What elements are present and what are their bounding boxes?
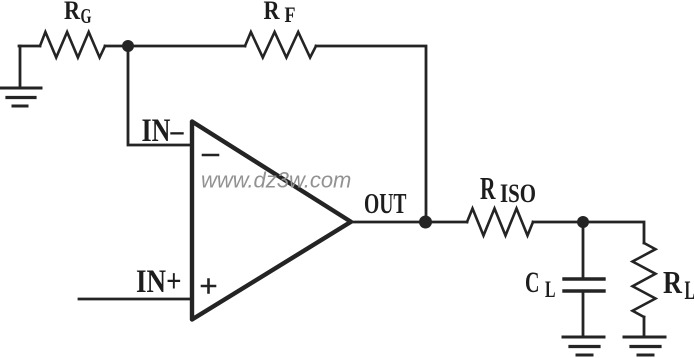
svg-text:www.dz3w.com: www.dz3w.com (201, 168, 351, 193)
svg-text:C: C (525, 266, 540, 299)
wire (RISO to CL node and RL corner) (533, 222, 644, 243)
svg-text:F: F (285, 2, 296, 27)
svg-text:L: L (545, 277, 556, 302)
wire (inverting input branch from node) (128, 46, 191, 145)
capacitor CL top lead (582, 222, 585, 277)
resistor RF (245, 32, 316, 58)
node B (output/feedback junction) (419, 216, 432, 229)
resistor RISO (467, 209, 533, 236)
wire (node to RF) (128, 45, 245, 48)
wire (op-amp output to RISO) (351, 221, 467, 224)
svg-text:ISO: ISO (500, 179, 536, 208)
op-amp plus pin mark (202, 280, 215, 293)
capacitor CL bottom lead (582, 291, 585, 337)
resistor RL (633, 243, 656, 317)
ground (left, for RG) (0, 46, 41, 106)
resistor RG (40, 32, 105, 58)
svg-text:R: R (480, 170, 496, 206)
svg-text:R: R (64, 0, 80, 25)
svg-text:G: G (81, 4, 92, 28)
node A (RG/RF/IN- junction) (122, 40, 134, 52)
capacitor CL plates (564, 277, 604, 280)
wire (RL to ground) (643, 317, 646, 337)
svg-text:IN+: IN+ (136, 264, 182, 300)
wire (gnd to RG) (19, 45, 40, 48)
svg-text:IN–: IN– (142, 113, 184, 149)
op-amp U1 (192, 122, 351, 320)
wire (RF to feedback corner, down to output node) (316, 46, 426, 222)
node C (RISO/CL/RL junction) (577, 216, 589, 228)
svg-text:OUT: OUT (364, 189, 407, 220)
wire (IN+ input) (79, 298, 191, 301)
wire (RG to node) (105, 45, 128, 48)
svg-text:R: R (663, 264, 683, 300)
svg-text:R: R (264, 0, 280, 25)
op-amp minus pin mark (203, 154, 218, 157)
ground (under RL) (624, 337, 665, 355)
svg-text:L: L (685, 276, 694, 305)
ground (under CL) (563, 337, 604, 355)
